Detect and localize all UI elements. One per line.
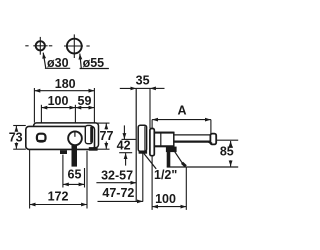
svg-text:59: 59: [78, 94, 92, 108]
lever handle: [167, 147, 171, 167]
label d30 leader: [43, 53, 46, 69]
svg-text:65: 65: [68, 168, 82, 182]
dimension 42 top arrow: [123, 125, 125, 139]
svg-text:73: 73: [9, 130, 23, 144]
svg-text:A: A: [177, 104, 186, 118]
dimension 172 extensions: [29, 150, 31, 209]
svg-text:ø30: ø30: [47, 56, 69, 70]
dimension 42 bottom extension: [119, 152, 132, 154]
dimension 42 bottom arrow: [125, 153, 127, 166]
svg-text:77: 77: [100, 129, 114, 143]
spout stem front: [72, 145, 78, 166]
dimension 85 top extension: [216, 139, 238, 141]
centerline vertical d30: [39, 37, 41, 55]
dimension 100 side line: [152, 206, 186, 208]
dimension 77 line: [105, 123, 107, 129]
svg-text:100: 100: [155, 192, 176, 206]
valve body block: [154, 132, 173, 146]
svg-text:180: 180: [55, 77, 76, 91]
flange inner line: [144, 126, 146, 150]
svg-text:35: 35: [136, 74, 150, 88]
dimension 65 extensions: [62, 155, 64, 188]
spout tube top: [174, 134, 211, 136]
dimension 100 side extensions: [151, 156, 153, 210]
handle escutcheon bar: [150, 129, 154, 156]
valve body divider: [160, 132, 162, 146]
temperature handle knob: [37, 134, 46, 142]
aerator nozzle: [208, 142, 213, 145]
dimension 59 line: [75, 107, 94, 109]
hole circle d55: [67, 39, 82, 54]
body end cap: [85, 125, 92, 143]
centerline horizontal through holes: [25, 45, 89, 47]
hole circle d30: [36, 41, 45, 50]
dimension 180 line: [34, 90, 94, 92]
dimension 42 top extension: [122, 138, 136, 140]
dimension 100 line: [41, 107, 75, 109]
dimension 180 extension lines: [33, 88, 35, 123]
volume handle tick: [74, 131, 76, 137]
dimension 85 line: [230, 141, 232, 147]
centerline vertical d55: [73, 34, 75, 58]
connection stub black: [139, 151, 148, 154]
svg-text:1/2": 1/2": [154, 168, 177, 182]
flange escutcheon: [138, 125, 146, 151]
dimension 172 line: [30, 204, 87, 206]
dimension 35 right extension: [149, 88, 151, 128]
dimension 65 line: [63, 183, 85, 185]
dimension 32-57 line: [96, 182, 136, 184]
svg-text:100: 100: [48, 94, 69, 108]
label d55 leader: [80, 54, 82, 69]
dimension A extensions: [151, 120, 153, 129]
volume handle circle: [68, 131, 82, 145]
bottom tab right: [89, 147, 98, 151]
label 1/2 inch leader: [144, 154, 156, 169]
dimension 77 extensions: [96, 122, 110, 124]
dimension 35 line: [120, 87, 136, 89]
body front: [26, 126, 95, 149]
wall line: [135, 88, 137, 202]
svg-text:172: 172: [48, 190, 69, 204]
body back plate: [34, 123, 99, 148]
temperature handle base: [37, 140, 46, 142]
lever bottom reference line: [167, 166, 239, 168]
lever root: [166, 147, 177, 153]
svg-text:47-72: 47-72: [102, 186, 134, 200]
svg-text:32-57: 32-57: [101, 169, 133, 183]
dimension 47-72 line: [98, 200, 143, 202]
svg-text:85: 85: [220, 144, 234, 158]
lever swing position: [173, 149, 184, 165]
svg-text:ø55: ø55: [83, 56, 105, 70]
spout tube bottom: [174, 141, 211, 143]
wall depth line 2: [142, 153, 144, 202]
dimension 73 extensions: [13, 125, 26, 127]
spout end cap: [210, 134, 216, 145]
dimension A line: [152, 119, 211, 121]
bottom tab left: [60, 150, 67, 154]
svg-text:42: 42: [117, 139, 131, 153]
dimension 100/59 extension lines: [40, 105, 42, 138]
dimension 73 line: [15, 126, 17, 130]
